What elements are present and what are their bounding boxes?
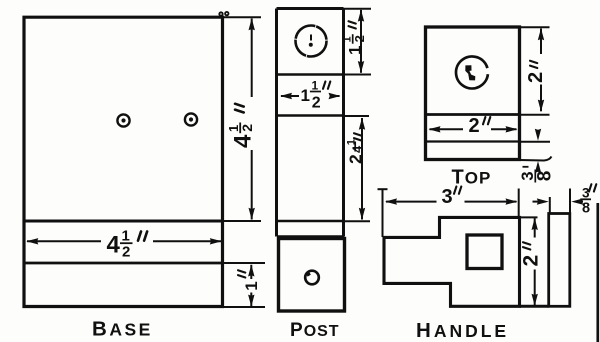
label 3/8 in upright xyxy=(580,184,596,216)
strip tick left xyxy=(549,197,551,214)
svg-text:1: 1 xyxy=(122,228,130,245)
svg-text:BASE: BASE xyxy=(92,318,153,341)
label 2 in vertical (rotated) xyxy=(520,242,543,266)
svg-text:POST: POST xyxy=(290,320,340,341)
dim 4 1/2 horizontal line xyxy=(26,238,222,244)
handle bottom extension to strip xyxy=(520,305,549,308)
post bottom square xyxy=(279,239,345,312)
svg-text:4: 4 xyxy=(107,232,121,259)
post hole center mark xyxy=(309,35,313,47)
post bottom circle xyxy=(305,271,319,285)
svg-text:2: 2 xyxy=(122,244,130,261)
dim 3/8 arrows xyxy=(535,129,541,173)
dim 2 in vertical xyxy=(538,28,544,111)
post line y221 xyxy=(277,220,344,223)
extension line at y263 xyxy=(223,262,266,264)
top line y141.5 xyxy=(426,140,520,142)
svg-text:TOP: TOP xyxy=(452,167,492,189)
label 3/8 in (rotated) xyxy=(519,167,555,183)
svg-text:1: 1 xyxy=(301,86,310,105)
svg-text:2: 2 xyxy=(525,72,547,83)
post top edge xyxy=(277,7,344,10)
dim 2 1/4 vertical right xyxy=(359,118,365,220)
dim 1 1/2 horizontal xyxy=(280,93,341,99)
svg-text:2: 2 xyxy=(239,124,255,132)
side strip xyxy=(549,214,570,307)
post line y236.5 xyxy=(277,235,344,238)
svg-text:4: 4 xyxy=(230,134,257,148)
svg-text:8: 8 xyxy=(535,171,556,182)
svg-text:HANDLE: HANDLE xyxy=(416,319,509,342)
dim 1 in right bottom xyxy=(238,265,261,307)
label 4 1/2 in horizontal xyxy=(107,228,148,261)
extension line at y221 xyxy=(223,220,262,222)
post line y115 xyxy=(277,114,344,117)
post hole top circle xyxy=(296,26,327,57)
right page border xyxy=(596,203,599,342)
handle inner square xyxy=(467,235,502,269)
svg-text:3: 3 xyxy=(442,186,453,208)
handle outline xyxy=(384,217,520,306)
stray corner marks xyxy=(219,12,228,16)
hole right xyxy=(185,113,197,125)
svg-text:2: 2 xyxy=(520,255,543,267)
svg-text:2: 2 xyxy=(352,35,367,42)
bottom edge extension with hook xyxy=(520,157,552,161)
label 2 in vertical (rotated) xyxy=(525,61,547,83)
dim 3 in horizontal xyxy=(385,198,518,204)
post right edge xyxy=(342,9,345,237)
label 4 1/2 in vertical (rotated) xyxy=(226,104,257,148)
top circle inner blob xyxy=(465,65,475,80)
strip dim arrows xyxy=(533,198,584,204)
post left edge xyxy=(275,9,278,237)
svg-text:2: 2 xyxy=(346,154,366,164)
strip tick right xyxy=(569,189,571,214)
svg-text:8: 8 xyxy=(582,201,590,217)
top outline xyxy=(426,27,520,160)
svg-text:2: 2 xyxy=(312,95,321,112)
extension right top xyxy=(518,189,520,218)
base outline xyxy=(24,17,223,306)
svg-text:2: 2 xyxy=(469,115,480,137)
svg-text:1: 1 xyxy=(346,46,365,55)
extension line bottom xyxy=(223,306,266,308)
dim 2 in horizontal xyxy=(429,126,518,132)
label 2 in horizontal xyxy=(469,115,491,137)
base band line lower xyxy=(24,262,223,265)
dim 1 1/2 vertical right xyxy=(358,10,364,73)
svg-text:1: 1 xyxy=(312,79,319,93)
top circle xyxy=(456,56,488,88)
label 1 1/2 in horizontal xyxy=(301,79,331,112)
top line y114.5 xyxy=(426,113,520,116)
svg-text:3: 3 xyxy=(582,186,590,201)
extension line top right xyxy=(223,16,262,18)
base band line upper xyxy=(24,220,223,223)
svg-text:1: 1 xyxy=(242,281,261,290)
top edge extension xyxy=(520,26,550,28)
label 3 in xyxy=(442,186,462,208)
label 2 1/4 in vertical (rotated) xyxy=(345,133,365,164)
dim 2 in vertical xyxy=(532,218,538,306)
dim 4 1/2 vertical line xyxy=(249,18,255,220)
extension left xyxy=(378,189,388,237)
handle top edge extension xyxy=(520,216,538,218)
post line y74 xyxy=(277,73,344,76)
hole left xyxy=(117,114,129,126)
svg-text:4: 4 xyxy=(349,145,364,153)
label 1 1/2 in vertical (rotated) xyxy=(342,21,368,55)
